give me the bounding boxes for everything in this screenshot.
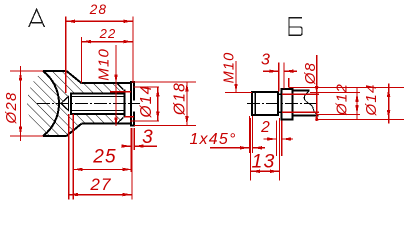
dim 25 bbox=[73, 114, 132, 200]
dim 2 (view B) bbox=[264, 121, 294, 157]
shaft bottom bbox=[292, 114, 318, 116]
boss right face bbox=[123, 90, 125, 118]
svg-text:2: 2 bbox=[260, 119, 271, 136]
svg-text:1х45°: 1х45° bbox=[189, 131, 236, 148]
drill cone bbox=[61, 97, 69, 111]
shaft top bbox=[292, 90, 309, 92]
svg-text:М10: М10 bbox=[221, 52, 237, 84]
svg-text:27: 27 bbox=[89, 175, 111, 194]
svg-text:13: 13 bbox=[251, 151, 275, 173]
stud major top bbox=[70, 93, 124, 95]
svg-text:М10: М10 bbox=[95, 48, 112, 81]
svg-text:3: 3 bbox=[142, 127, 154, 148]
svg-text:Ø18: Ø18 bbox=[172, 82, 189, 116]
stud major bottom bbox=[70, 113, 124, 115]
svg-text:Ø14: Ø14 bbox=[138, 85, 155, 119]
dim d12 (view B) bbox=[310, 88, 360, 119]
top chamfer bbox=[117, 84, 123, 90]
dim 28 bbox=[66, 17, 133, 94]
thread section outline bbox=[252, 92, 278, 115]
neck top bbox=[278, 93, 281, 95]
svg-text:28: 28 bbox=[89, 2, 107, 17]
cone base line bbox=[68, 97, 70, 111]
svg-text:Ø28: Ø28 bbox=[3, 92, 20, 125]
svg-text:3: 3 bbox=[261, 52, 271, 69]
break line bbox=[304, 91, 317, 116]
svg-text:22: 22 bbox=[99, 26, 117, 41]
dim 1x45 (view B) bbox=[210, 116, 265, 153]
head disk left face bbox=[130, 82, 132, 125]
head disk bottom bbox=[130, 124, 135, 126]
svg-text:25: 25 bbox=[92, 147, 117, 168]
dim 3 (view A head) bbox=[124, 128, 157, 172]
dim 22 bbox=[82, 37, 133, 83]
body bottom edge bbox=[43, 135, 67, 137]
dim d28 (left) bbox=[10, 66, 43, 141]
body bottom slant bbox=[67, 124, 82, 136]
dim 13 (view B) bbox=[251, 118, 280, 181]
head disk right face bbox=[133, 82, 135, 101]
body top slant bbox=[67, 71, 82, 83]
body top edge bbox=[43, 70, 67, 72]
bottom chamfer bbox=[117, 117, 123, 123]
dim 27 bbox=[69, 114, 132, 200]
collar outline bbox=[282, 89, 293, 120]
head disk top bbox=[130, 81, 135, 83]
centerline A bbox=[37, 102, 140, 104]
boss top line bbox=[82, 82, 132, 84]
dim M10 (view A) bbox=[115, 45, 117, 126]
boss bottom line bbox=[82, 123, 132, 125]
view label A bbox=[29, 9, 45, 27]
stud minor top (thin) bbox=[72, 96, 125, 98]
dim d14 (view B) bbox=[289, 78, 404, 124]
centerline B bbox=[247, 102, 317, 104]
dim d8 (view B) bbox=[282, 55, 319, 121]
stud end face bbox=[70, 94, 72, 114]
svg-text:Ø14: Ø14 bbox=[363, 84, 380, 117]
dim d14 (view A) bbox=[110, 87, 159, 121]
body outline left arc bbox=[43, 71, 59, 136]
dim d18 (view A) bbox=[132, 82, 196, 125]
stud minor bottom (thin) bbox=[72, 110, 125, 112]
dim M10 (view B) bbox=[225, 61, 252, 93]
svg-text:Ø8: Ø8 bbox=[302, 62, 319, 85]
thread chamfer line bbox=[254, 92, 256, 115]
view label B bbox=[289, 18, 302, 35]
dim 3 (view B) bbox=[263, 63, 297, 92]
hatched body section bbox=[27, 71, 124, 136]
neck bottom bbox=[278, 111, 281, 113]
